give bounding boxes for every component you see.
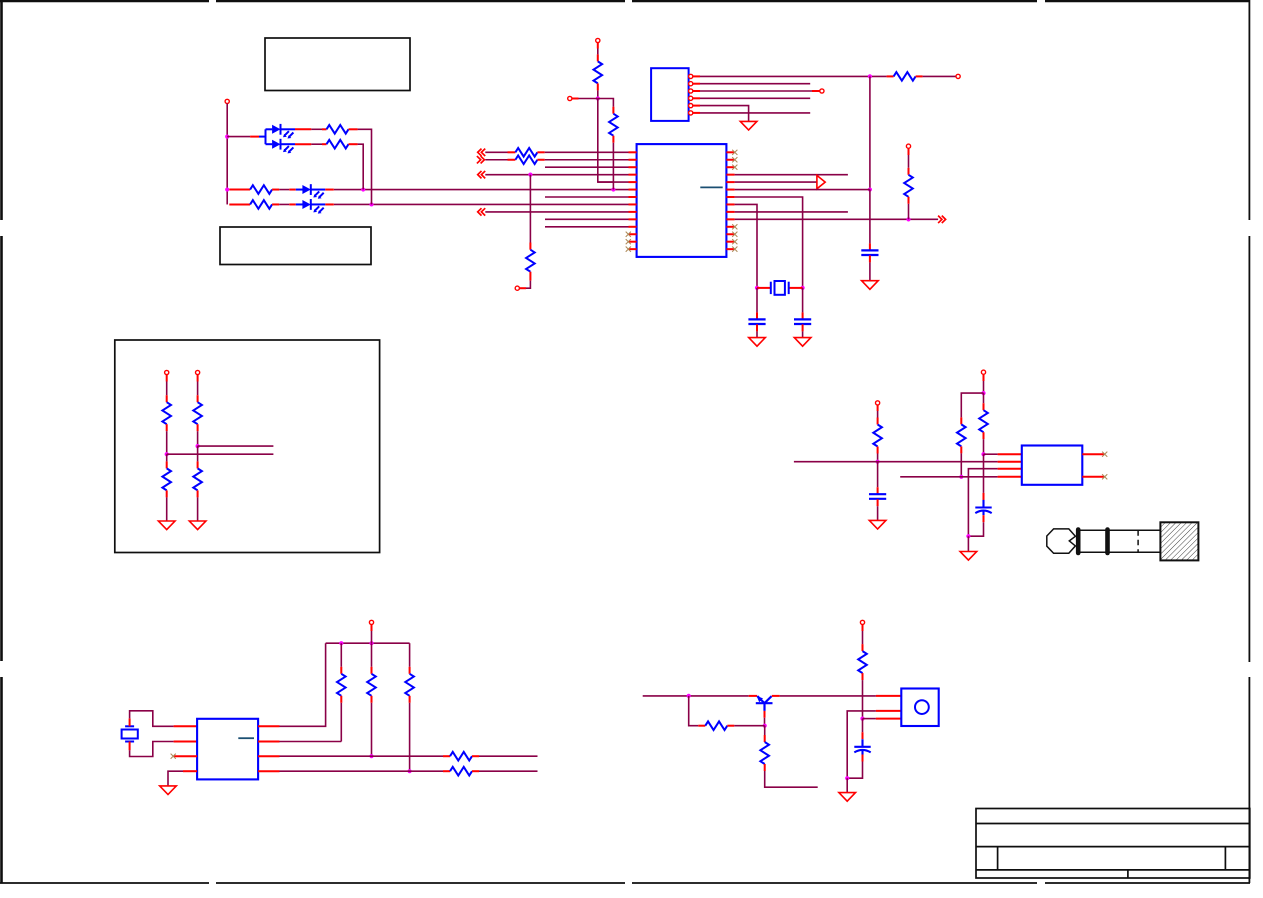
- resistor R7 vertical: [529, 243, 531, 250]
- terminal port P2 left: [568, 96, 572, 100]
- J2 pin stubs: [693, 76, 700, 113]
- wire U3 p4 row with R19: [280, 770, 444, 772]
- junction ground mic: [845, 776, 849, 780]
- wire lower LED row6 branch: [229, 189, 250, 191]
- wire J2 pin6: [700, 112, 810, 114]
- off-page connector right row10: [938, 216, 946, 223]
- terminal port P9: [369, 620, 373, 624]
- wire to junction: [197, 431, 199, 446]
- wire U1 right row6 to VBUS net: [735, 189, 870, 191]
- wire pin1 net down to C5: [983, 454, 985, 493]
- wire to ground G9: [846, 778, 848, 792]
- off-page connector left row4: [478, 171, 486, 178]
- resistor R15 vertical: [340, 643, 342, 667]
- junction P8 branch: [981, 391, 985, 395]
- wire D1 cathode to R8: [295, 128, 311, 130]
- wire row5 from resistor branch: [598, 181, 629, 183]
- wire R9 corner down to row6: [358, 144, 364, 189]
- resistor R8: [322, 128, 327, 130]
- wire crystal right to C2: [802, 288, 804, 313]
- IC U2 audio amp: [1022, 446, 1083, 485]
- wire divider tap lower: [167, 453, 274, 455]
- wire D3 cathode to row6 net: [325, 189, 334, 191]
- resistor R12 vertical: [877, 418, 879, 425]
- wire C2 to ground: [802, 324, 804, 331]
- wire branch to R14: [961, 393, 983, 417]
- wire C4 to ground: [877, 499, 879, 506]
- wire LED supply vertical: [226, 104, 228, 205]
- junction row10: [906, 217, 910, 221]
- wire row7 stub: [545, 196, 629, 198]
- LED D1: [266, 124, 296, 139]
- wire row2 left: [485, 159, 507, 161]
- wire row3 stub: [545, 166, 629, 168]
- junction mic pin3: [860, 717, 864, 721]
- junction base: [763, 724, 767, 728]
- U3 pin3 no-connect: [174, 755, 198, 757]
- junction J1: [596, 96, 600, 100]
- wire row9: [485, 211, 628, 213]
- transistor Q1: [756, 696, 773, 711]
- wire P9 to rail: [371, 625, 373, 632]
- resistor R16 vertical: [371, 643, 373, 667]
- wire PD2 down: [197, 375, 199, 382]
- crystal Y1: [757, 287, 771, 289]
- terminal port PD1: [165, 370, 169, 374]
- wire R21 to stub end: [765, 771, 818, 787]
- junction mic row: [687, 694, 691, 698]
- annotation box divider block: [115, 340, 380, 553]
- IC U3: [197, 719, 258, 780]
- wire row6 long (LED net A): [334, 189, 629, 191]
- capacitor C4: [869, 494, 886, 499]
- terminal port P3: [515, 286, 519, 290]
- wire to junction: [166, 431, 168, 454]
- wire to junction J1: [597, 90, 599, 98]
- wire U2 pin4 row: [900, 476, 997, 478]
- off-page arrow right row5: [817, 175, 825, 188]
- wire R20 to base junction: [734, 725, 764, 727]
- junction row8 at LED drop: [369, 202, 373, 206]
- U1 right pin stubs: [726, 152, 734, 249]
- wire PD1 down: [166, 375, 168, 382]
- resistor R10: [250, 185, 272, 194]
- wire VBUS vertical drop: [869, 76, 871, 189]
- wire P2 to J1: [572, 98, 579, 100]
- J2 pin circles: [689, 74, 693, 115]
- wire R4 to row6 junction: [612, 143, 614, 190]
- ground G4: [794, 338, 811, 347]
- terminal port P6 above R2: [906, 144, 910, 148]
- wire J1 right and down through R4: [598, 99, 614, 107]
- junction audio in: [876, 460, 880, 464]
- wire J2 pin1 VBUS: [700, 75, 887, 77]
- title block: [976, 809, 1250, 879]
- wire to ground: [166, 497, 168, 521]
- wire P7 to R12: [877, 405, 879, 411]
- wire row4: [485, 174, 628, 176]
- wire U2 pin3 row: [968, 469, 997, 537]
- annotation box top-left: [265, 38, 410, 91]
- resistor R6 row2: [508, 159, 516, 161]
- sheet border right edge: [1248, 0, 1250, 883]
- junction crystal right: [801, 286, 805, 290]
- wire R2 to row10: [908, 204, 910, 220]
- wire P8 main to R13: [983, 393, 985, 403]
- ground GD2: [189, 521, 206, 530]
- wire Q1 collector right to mic: [772, 695, 780, 697]
- resistor R17 vertical: [409, 643, 411, 667]
- resistor R9: [322, 143, 327, 145]
- terminal port P0 LED supply: [225, 99, 229, 103]
- wire R10 to D3: [279, 189, 289, 191]
- wire to upper LED pair anode: [227, 136, 250, 138]
- wire divider tap upper: [198, 445, 274, 447]
- junction divider 1: [165, 452, 169, 456]
- wire R1 to port: [923, 75, 956, 77]
- resistor R4 vertical: [612, 107, 614, 114]
- resistor R2 vertical: [908, 168, 910, 175]
- wire to ground G8: [967, 536, 969, 551]
- wire to terminal: [526, 281, 530, 289]
- wire C5 to ground junction: [983, 515, 985, 522]
- terminal port P8: [981, 370, 985, 374]
- terminal port P7: [876, 401, 880, 405]
- connector J2 USB: [651, 68, 689, 121]
- off-page connector left row1: [478, 149, 486, 156]
- resistor RD2a vertical: [193, 402, 202, 424]
- wire Y2 bottom to U3 pin2: [130, 742, 174, 757]
- wire feedback from junction: [689, 696, 699, 726]
- sheet border left edge: [0, 0, 3, 883]
- ground G9: [839, 793, 856, 802]
- wire audio row to U2 pin2: [794, 461, 998, 463]
- wire R22 down to mic pin3: [862, 680, 864, 719]
- terminal port PD2: [196, 370, 200, 374]
- ground GD1: [158, 521, 175, 530]
- wire D2 cathode to R9: [295, 143, 311, 145]
- junction rail b: [369, 641, 373, 645]
- supply rail: [326, 642, 410, 644]
- wire U3 p1 up to rail: [280, 643, 326, 726]
- U3 right pin stubs: [258, 726, 279, 771]
- wire J2 pin2: [700, 83, 810, 85]
- U1 right no-connect X marks pins 1-3 and 11-14: [732, 150, 737, 252]
- terminal port P4: [956, 74, 960, 78]
- junction R17 to p4 row: [408, 769, 412, 773]
- junction rail a: [339, 641, 343, 645]
- wire junction to lower resistor: [166, 454, 168, 461]
- resistor R1: [887, 75, 894, 77]
- junction VBUS at row6: [868, 187, 872, 191]
- junction row4 net: [959, 475, 963, 479]
- wire U1 right row4: [735, 174, 848, 176]
- wire U3 p2 to R15: [280, 741, 342, 743]
- resistor R22 vertical: [862, 644, 864, 651]
- terminal port P5: [820, 89, 824, 93]
- resistor R20: [698, 725, 705, 727]
- audio jack plug symbol: [1047, 529, 1161, 553]
- wire row11 stub: [545, 226, 629, 228]
- wire U1 right row8 to crystal: [735, 204, 757, 287]
- wire row1 to U1: [545, 151, 629, 153]
- wire J2 pin5 to ground: [700, 106, 749, 122]
- capacitor C3: [861, 250, 878, 255]
- ground G8: [960, 552, 977, 561]
- wire Q1 base down: [764, 711, 766, 718]
- junction row6 at resistor drop: [611, 187, 615, 191]
- U1 left pin stubs: [629, 152, 637, 249]
- junction LED lower: [225, 187, 229, 191]
- LED D4: [296, 199, 326, 214]
- wire C3 to ground: [869, 255, 871, 262]
- IC U1 main controller: [637, 144, 727, 257]
- capacitor C5 polarized: [975, 500, 991, 515]
- wire junction to lower resistor: [197, 446, 199, 461]
- terminal port P1 top: [596, 38, 600, 42]
- junction row6 at LED drop: [361, 187, 365, 191]
- wire J2 pin3: [700, 90, 812, 92]
- resistor R21 vertical: [760, 742, 769, 764]
- resistor R3 vertical: [597, 54, 599, 61]
- junction crystal left: [755, 286, 759, 290]
- ground G3: [749, 338, 766, 347]
- U3 internal overline mark: [238, 737, 254, 739]
- wire U3 p3 row with R18: [280, 755, 444, 757]
- annotation box mid-left: [220, 227, 371, 265]
- wire VBUS down to C3: [869, 190, 871, 244]
- wire row1 left: [485, 151, 507, 153]
- junction divider 2: [196, 444, 200, 448]
- wire U1 right row5 to arrow: [735, 181, 817, 183]
- junction LED upper: [225, 135, 229, 139]
- resistor R11: [250, 200, 272, 209]
- wire R11 to D4: [279, 203, 289, 205]
- resistor R14 vertical: [960, 417, 962, 424]
- wire pulldown from row4 junction: [529, 175, 531, 243]
- ground G7: [869, 520, 886, 529]
- LED D3: [296, 184, 326, 199]
- junction row4: [528, 173, 532, 177]
- off-page connector right row2: [477, 156, 485, 163]
- Y2 top stub: [129, 718, 131, 726]
- junction VBUS: [868, 74, 872, 78]
- wire U1 right row9: [735, 211, 848, 213]
- wire row8 long (LED net B): [334, 203, 629, 205]
- wire U2 pin1 row: [984, 453, 998, 455]
- crystal Y2: [125, 725, 134, 727]
- wire mic pin3: [863, 718, 876, 720]
- resistor R13 vertical: [979, 410, 988, 432]
- resistor RD2b vertical: [193, 468, 202, 490]
- Y2 bottom stub: [129, 742, 131, 751]
- sheet border bottom edge: [0, 882, 1250, 884]
- junction R16 to p3 row: [369, 754, 373, 758]
- wire U1 right row10 long: [735, 218, 939, 220]
- capacitor C2: [794, 319, 811, 324]
- wire mic pin2 to ground branch: [847, 711, 876, 778]
- wire P6 to R2: [908, 148, 910, 155]
- LED bracket: [265, 129, 267, 144]
- junction U2 pin1: [981, 452, 985, 456]
- capacitor C6 polarized: [854, 739, 870, 754]
- U1 left no-connect X pins 12-14: [626, 232, 631, 252]
- wire U3 pin4 to ground: [183, 770, 197, 772]
- wire from P1: [597, 43, 599, 49]
- wire junction down to C4: [877, 462, 879, 488]
- wire J1 down to row5: [598, 99, 614, 183]
- wire R8 corner down to row8: [358, 129, 372, 204]
- terminal port P10: [860, 620, 864, 624]
- microphone M1: [901, 689, 938, 727]
- ground G2: [862, 281, 879, 290]
- wire to ground: [197, 497, 199, 521]
- wire mic signal row: [643, 695, 749, 697]
- resistor RD1a vertical: [162, 402, 171, 424]
- ground G1: [740, 121, 757, 130]
- wire J2 pin4: [700, 97, 810, 99]
- capacitor C1: [748, 319, 765, 324]
- LED D2: [266, 139, 296, 154]
- U1 internal overline mark: [700, 186, 722, 188]
- wire crystal left to C1: [756, 288, 758, 313]
- wire base junction down: [764, 726, 766, 735]
- U2 right stubs with no-connect: [1082, 453, 1104, 455]
- wire row2 to U1: [545, 159, 629, 161]
- wire R13 to U2 pin1 junction: [983, 439, 985, 454]
- wire C1 to ground: [756, 324, 758, 331]
- wire U1 right row7 to crystal: [735, 197, 803, 288]
- ground G10: [160, 786, 177, 795]
- wire D4 cathode to row8 net: [325, 203, 334, 205]
- sheet border top edge: [0, 0, 1250, 2]
- wire P10 to R22: [862, 625, 864, 632]
- wire pin3 down to C6: [862, 719, 864, 733]
- resistor RD1b vertical: [162, 468, 171, 490]
- junction ground net: [966, 534, 970, 538]
- wire lower LED row8 branch: [229, 203, 250, 205]
- wire R14 to row4 junction: [960, 453, 962, 476]
- wire row10 stub: [545, 218, 629, 220]
- wire P8 down: [983, 374, 985, 381]
- wire R12 to row: [877, 454, 879, 462]
- wire C6 to ground junction: [862, 755, 864, 762]
- wire Y2 top to U3 pin1: [130, 711, 174, 727]
- off-page connector left row9: [478, 208, 486, 215]
- resistor R5 row1: [508, 151, 516, 153]
